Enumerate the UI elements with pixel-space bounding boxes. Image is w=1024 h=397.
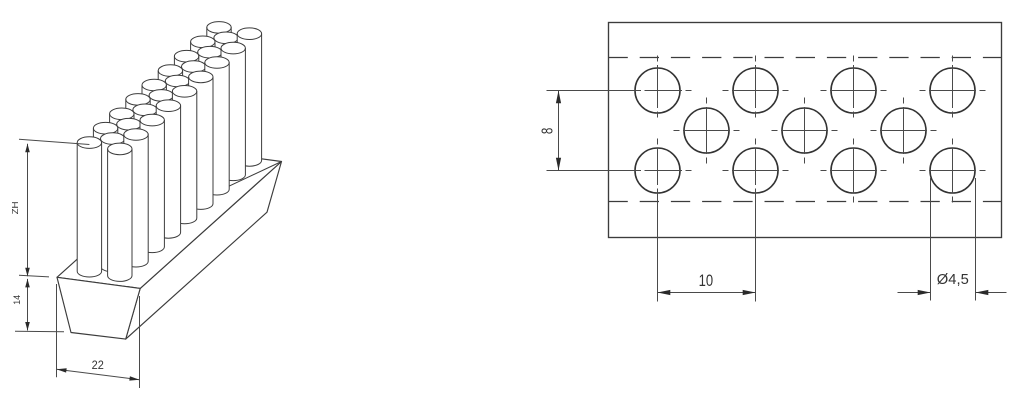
svg-text:ZH: ZH (11, 201, 20, 214)
svg-text:Ø4,5: Ø4,5 (937, 272, 969, 288)
svg-text:8: 8 (539, 128, 556, 135)
svg-text:14: 14 (12, 295, 23, 305)
svg-text:10: 10 (699, 272, 714, 290)
svg-text:22: 22 (92, 358, 104, 372)
